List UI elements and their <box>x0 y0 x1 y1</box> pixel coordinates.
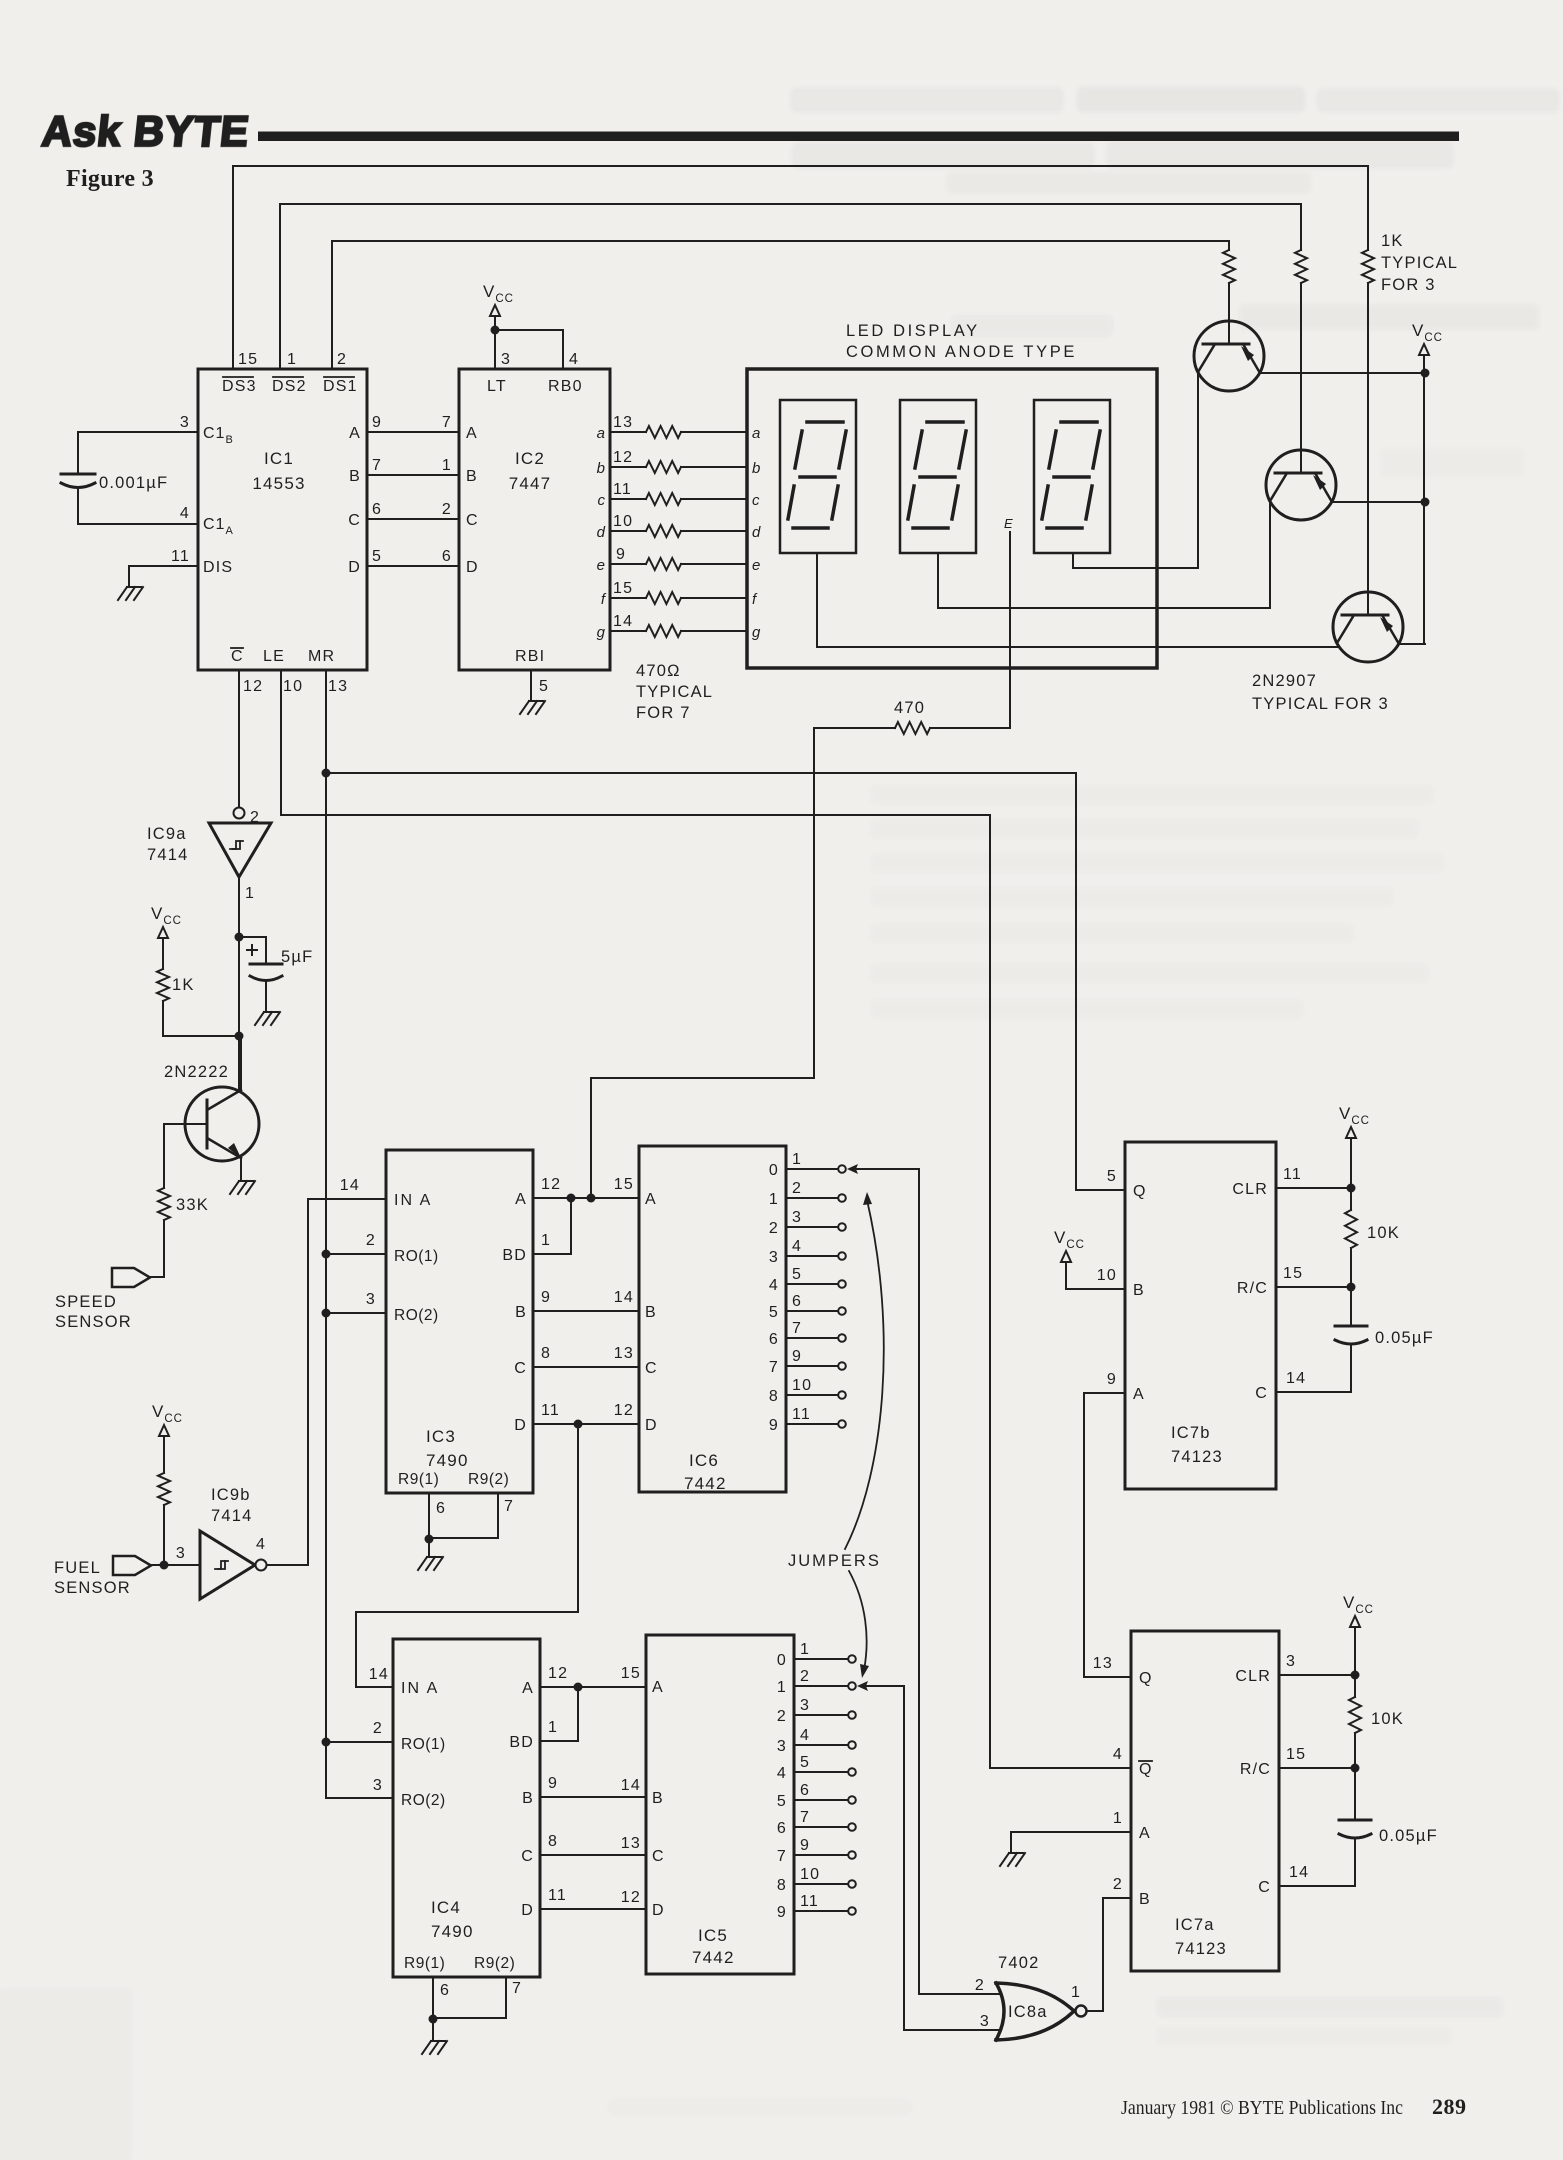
IC5 output 0 pin 1 jumper post <box>777 1641 856 1669</box>
svg-text:f: f <box>601 591 607 608</box>
wire IC4 R9 pins 6,7 to ground <box>429 1977 523 2040</box>
label JUMPERS with selection arrows <box>788 1192 884 1678</box>
IC6 output 3 pin 4 jumper post <box>769 1238 846 1266</box>
svg-text:13: 13 <box>614 1345 634 1362</box>
svg-text:TYPICAL FOR 3: TYPICAL FOR 3 <box>1252 695 1389 713</box>
svg-text:D: D <box>521 1902 534 1919</box>
svg-text:c: c <box>752 492 761 509</box>
wire IC1 MR pin 13 vertical to reset bus <box>322 670 331 1798</box>
svg-text:9: 9 <box>1107 1371 1117 1388</box>
svg-text:7442: 7442 <box>692 1948 735 1967</box>
IC5 output 9 pin 11 jumper post <box>777 1893 856 1921</box>
wire 470 resistor to IC3 A output <box>587 728 815 1203</box>
IC5 output 5 pin 6 jumper post <box>777 1782 856 1810</box>
svg-text:B: B <box>1133 1282 1145 1299</box>
svg-text:12: 12 <box>548 1665 568 1682</box>
svg-text:1: 1 <box>777 1679 787 1696</box>
svg-text:R9(2): R9(2) <box>474 1955 515 1972</box>
svg-text:0: 0 <box>769 1162 779 1179</box>
svg-text:3: 3 <box>373 1777 383 1794</box>
wire IC1 A to IC2 A <box>367 431 459 433</box>
IC5 output 3 pin 4 jumper post <box>777 1727 856 1755</box>
svg-text:BD: BD <box>502 1247 527 1264</box>
svg-text:SPEED: SPEED <box>55 1293 117 1311</box>
wire IC3 A to IC3 BD pin 1 <box>533 1198 571 1254</box>
svg-text:1: 1 <box>442 457 452 474</box>
svg-text:B: B <box>1139 1891 1151 1908</box>
svg-text:IC9b: IC9b <box>211 1486 251 1504</box>
svg-text:14: 14 <box>613 613 633 630</box>
IC5 output 7 pin 9 jumper post <box>777 1837 856 1865</box>
wire IC4 RO(1) pin 2 stub <box>326 1741 393 1743</box>
resistor 470 ohm segment c <box>610 493 747 505</box>
ground at IC1 DIS <box>118 587 143 600</box>
svg-text:3: 3 <box>800 1697 810 1714</box>
wire IC4 A out to IC5 A in <box>540 1683 646 1692</box>
svg-text:g: g <box>597 624 606 641</box>
wire IC3 R9 pins 6,7 to ground <box>425 1493 515 1556</box>
svg-text:7490: 7490 <box>426 1451 469 1470</box>
svg-text:RBI: RBI <box>515 648 545 665</box>
resistor 470 ohm segment f <box>610 592 747 604</box>
svg-text:6: 6 <box>436 1500 446 1517</box>
svg-text:8: 8 <box>541 1345 551 1362</box>
svg-text:6: 6 <box>442 548 452 565</box>
power symbol VCC at IC7a CLR <box>1343 1593 1374 1675</box>
svg-text:9: 9 <box>800 1837 810 1854</box>
svg-text:c: c <box>598 492 607 509</box>
svg-text:12: 12 <box>243 678 263 695</box>
svg-text:C: C <box>652 1848 665 1865</box>
svg-text:13: 13 <box>1093 1655 1113 1672</box>
svg-text:g: g <box>752 624 761 641</box>
svg-text:4: 4 <box>180 505 190 522</box>
svg-text:2N2222: 2N2222 <box>164 1063 229 1081</box>
svg-text:10K: 10K <box>1367 1224 1400 1242</box>
svg-text:7: 7 <box>442 414 452 431</box>
svg-text:RO(2): RO(2) <box>394 1307 439 1324</box>
svg-text:6: 6 <box>769 1331 779 1348</box>
IC6 output 7 pin 9 jumper post <box>769 1348 846 1376</box>
svg-text:R9(1): R9(1) <box>398 1471 439 1488</box>
svg-text:TYPICAL: TYPICAL <box>1381 254 1458 272</box>
svg-text:14: 14 <box>621 1777 641 1794</box>
svg-text:1: 1 <box>1071 1984 1081 2001</box>
svg-text:1: 1 <box>769 1191 779 1208</box>
ground at 5uF capacitor <box>255 1012 280 1025</box>
jumper wire IC5 output 1 to IC8a input 3 <box>857 1681 1001 2030</box>
wire IC4 C out to IC5 C in <box>540 1854 646 1856</box>
svg-text:15: 15 <box>1286 1746 1306 1763</box>
svg-text:6: 6 <box>777 1820 787 1837</box>
svg-text:12: 12 <box>621 1889 641 1906</box>
wire Q1 emitter to VCC rail <box>1260 369 1430 378</box>
resistor 470 ohm to node E <box>814 532 1010 734</box>
svg-text:0.001µF: 0.001µF <box>99 474 168 492</box>
svg-text:D: D <box>652 1902 665 1919</box>
figure caption "Figure 3" <box>66 166 154 192</box>
wire MR branch to IC7b Q pin 5 <box>326 773 1125 1190</box>
svg-text:14: 14 <box>1286 1370 1306 1387</box>
connector SPEED SENSOR <box>55 1220 164 1331</box>
svg-text:3: 3 <box>180 414 190 431</box>
capacitor 0.05uF at IC7b <box>1276 1287 1434 1392</box>
svg-text:3: 3 <box>769 1249 779 1266</box>
svg-text:C: C <box>521 1848 534 1865</box>
svg-text:470: 470 <box>894 699 925 717</box>
wire IC1 C-bar pin 12 to IC9a input <box>238 670 240 807</box>
wire IC2 RBI pin 5 to ground <box>530 670 532 700</box>
svg-text:7414: 7414 <box>211 1507 253 1525</box>
page header title "Ask BYTE" <box>40 108 252 155</box>
svg-text:2: 2 <box>366 1232 376 1249</box>
svg-text:470Ω: 470Ω <box>636 662 681 680</box>
svg-text:DIS: DIS <box>203 559 233 576</box>
svg-text:11: 11 <box>541 1402 560 1419</box>
svg-text:CLR: CLR <box>1235 1668 1271 1685</box>
svg-text:IC1: IC1 <box>264 449 294 468</box>
ground at IC3 R9 <box>418 1557 443 1570</box>
wire IC3 RO(1) pin 2 stub <box>326 1253 386 1255</box>
wire IC9b output to IC3 IN A <box>267 1199 386 1565</box>
wire IC1 DIS pin 11 to ground <box>129 566 198 586</box>
connector FUEL SENSOR <box>54 1505 200 1597</box>
svg-text:LE: LE <box>263 648 285 665</box>
svg-text:7490: 7490 <box>431 1922 474 1941</box>
svg-text:3: 3 <box>777 1738 787 1755</box>
svg-text:10: 10 <box>800 1866 820 1883</box>
svg-text:4: 4 <box>569 351 579 368</box>
wire Q4 emitter to ground <box>240 1158 242 1180</box>
svg-text:2N2907: 2N2907 <box>1252 672 1317 690</box>
7-segment digit 3 <box>1034 400 1110 553</box>
svg-text:5: 5 <box>1107 1168 1117 1185</box>
svg-text:9: 9 <box>372 414 382 431</box>
svg-text:4: 4 <box>1113 1746 1123 1763</box>
svg-text:DS1: DS1 <box>323 378 358 395</box>
svg-text:1: 1 <box>541 1232 551 1249</box>
wire IC9a output node <box>235 877 244 1089</box>
transistor Q2 2N2907 (digit2 driver) <box>1266 450 1336 520</box>
wire IC8a output pin 1 to IC7a B pin 2 <box>1087 1898 1131 2011</box>
svg-text:IC7a: IC7a <box>1175 1916 1215 1934</box>
svg-text:B: B <box>349 468 361 485</box>
wire digit2 common anode to Q2 collector <box>938 500 1270 608</box>
svg-text:11: 11 <box>548 1887 567 1904</box>
svg-text:10: 10 <box>1097 1267 1117 1284</box>
page number 289 <box>1432 2094 1467 2119</box>
svg-text:12: 12 <box>614 1402 634 1419</box>
svg-text:8: 8 <box>777 1877 787 1894</box>
svg-text:DS2: DS2 <box>272 378 307 395</box>
svg-text:IN A: IN A <box>401 1680 439 1697</box>
IC IC3 7490 (decade counter) <box>340 1150 561 1493</box>
svg-text:9: 9 <box>548 1775 558 1792</box>
svg-text:Ask BYTE: Ask BYTE <box>40 108 252 155</box>
svg-text:7: 7 <box>504 1498 514 1515</box>
wire IC3 D to IC4 IN A (cascade) <box>356 1424 578 1687</box>
svg-text:10K: 10K <box>1371 1710 1404 1728</box>
IC IC1 14553 (3-digit BCD counter) <box>171 351 382 695</box>
ground at Q4 emitter <box>230 1181 255 1194</box>
svg-text:A: A <box>515 1191 527 1208</box>
svg-text:5: 5 <box>800 1754 810 1771</box>
svg-text:14: 14 <box>614 1289 634 1306</box>
wire IC7a CLR pin 3 node <box>1279 1671 1360 1680</box>
IC6 output 8 pin 10 jumper post <box>769 1377 846 1405</box>
svg-text:B: B <box>645 1304 657 1321</box>
svg-text:15: 15 <box>238 351 258 368</box>
inverter IC9b 7414 (schmitt) <box>176 1486 267 1599</box>
svg-text:C: C <box>514 1360 527 1377</box>
wire IC1 DS1 pin 2 to Q1 base (top rail 3) <box>332 241 1229 369</box>
svg-text:4: 4 <box>256 1536 266 1553</box>
power symbol VCC at IC7b B pin 10 <box>1054 1228 1125 1289</box>
capacitor 5uF at IC9a output <box>239 937 313 1010</box>
capacitor 0.05uF at IC7a <box>1279 1768 1438 1886</box>
wire IC4 RO(2) pin 3 stub <box>326 1797 393 1799</box>
svg-text:2: 2 <box>373 1720 383 1737</box>
IC IC5 7442 (BCD decoder) <box>621 1635 794 1974</box>
wire 1K to Q3 base <box>1367 283 1369 592</box>
svg-text:14553: 14553 <box>252 474 305 493</box>
svg-text:33K: 33K <box>176 1196 209 1214</box>
svg-text:12: 12 <box>541 1176 561 1193</box>
svg-text:RO(1): RO(1) <box>401 1736 446 1753</box>
wire Q2 emitter to VCC rail <box>1332 498 1430 507</box>
svg-text:11: 11 <box>613 481 632 498</box>
resistor 10K at IC7b <box>1345 1188 1400 1287</box>
svg-text:SENSOR: SENSOR <box>54 1579 131 1597</box>
svg-text:11: 11 <box>171 548 190 565</box>
svg-text:b: b <box>752 460 761 477</box>
svg-text:D: D <box>466 559 479 576</box>
IC5 output 1 pin 2 jumper post <box>777 1668 856 1696</box>
wire IC3 C out to IC6 C in <box>533 1366 639 1368</box>
resistor 470 ohm segment a <box>610 426 747 438</box>
svg-text:74123: 74123 <box>1175 1940 1227 1958</box>
svg-text:IC4: IC4 <box>431 1898 461 1917</box>
svg-text:BD: BD <box>509 1734 534 1751</box>
svg-text:FOR 7: FOR 7 <box>636 704 691 722</box>
resistor 1K at Q2 base <box>1295 250 1307 283</box>
resistor 1K pullup (speed one-shot) <box>157 969 195 1001</box>
wire IC4 B out to IC5 B in <box>540 1796 646 1798</box>
svg-text:5: 5 <box>792 1266 802 1283</box>
IC6 output 4 pin 5 jumper post <box>769 1266 846 1294</box>
wire IC1 DS3 pin 15 to Q3 base (top rail 1) <box>233 166 1368 369</box>
svg-text:2: 2 <box>800 1668 810 1685</box>
svg-text:IC9a: IC9a <box>147 825 187 843</box>
svg-text:C: C <box>231 648 244 665</box>
label 470 ohm typical for 7 <box>636 662 713 722</box>
svg-text:2: 2 <box>337 351 347 368</box>
svg-text:RB0: RB0 <box>548 378 583 395</box>
svg-text:C: C <box>348 512 361 529</box>
ground at IC7a A <box>1000 1853 1025 1866</box>
inverter IC9a 7414 (schmitt) <box>147 808 271 903</box>
IC5 output 6 pin 7 jumper post <box>777 1809 856 1837</box>
wire IC3 D out to IC6 D in <box>533 1420 639 1429</box>
IC6 output 5 pin 6 jumper post <box>769 1293 846 1321</box>
svg-text:12: 12 <box>613 449 633 466</box>
IC6 output 1 pin 2 jumper post <box>769 1180 846 1208</box>
svg-text:A: A <box>466 425 478 442</box>
wire Q3 emitter to VCC rail <box>1399 643 1425 645</box>
svg-text:1K: 1K <box>1381 232 1404 250</box>
LED display common-anode module <box>747 322 1157 668</box>
wire 1K to Q2 base <box>1300 283 1302 450</box>
svg-text:R/C: R/C <box>1240 1761 1271 1778</box>
svg-text:RO(1): RO(1) <box>394 1248 439 1265</box>
resistor 1K at Q3 base <box>1362 250 1374 283</box>
svg-text:1K: 1K <box>172 976 195 994</box>
wire IC3 B out to IC6 B in <box>533 1310 639 1312</box>
svg-text:1: 1 <box>287 351 297 368</box>
svg-text:A: A <box>1139 1825 1151 1842</box>
wire IC1 DS2 pin 1 to Q2 base (top rail 2) <box>280 204 1301 369</box>
svg-text:3: 3 <box>176 1545 186 1562</box>
svg-text:RO(2): RO(2) <box>401 1792 446 1809</box>
label 2N2907 typical for 3 <box>1252 672 1389 713</box>
wire VCC to IC2 pins 3 and 4 <box>491 326 564 370</box>
wire IC7b A pin 9 to IC7a Q pin 13 <box>1084 1393 1131 1677</box>
wire 1K to Q1 base <box>1228 283 1230 321</box>
svg-text:11: 11 <box>792 1406 811 1423</box>
svg-text:DS3: DS3 <box>222 378 257 395</box>
svg-text:IC6: IC6 <box>689 1451 719 1470</box>
svg-text:R9(1): R9(1) <box>404 1955 445 1972</box>
label 1K typical for 3 <box>1381 232 1458 294</box>
wire Q4 collector to IC9a output node <box>240 1036 242 1090</box>
resistor 470 ohm segment e <box>610 558 747 570</box>
svg-text:e: e <box>597 557 606 574</box>
transistor Q1 2N2907 (digit3 driver) <box>1194 321 1264 391</box>
IC5 output 2 pin 3 jumper post <box>777 1697 856 1725</box>
svg-text:1: 1 <box>792 1151 802 1168</box>
svg-text:Q: Q <box>1139 1670 1153 1687</box>
wire IC7a A pin 1 to ground <box>1011 1832 1131 1852</box>
svg-text:4: 4 <box>777 1765 787 1782</box>
svg-text:7402: 7402 <box>998 1954 1040 1972</box>
svg-text:D: D <box>348 559 361 576</box>
svg-text:2: 2 <box>777 1708 787 1725</box>
svg-text:C: C <box>1258 1879 1271 1896</box>
resistor 1K at Q1 base <box>1223 250 1235 283</box>
svg-text:5: 5 <box>769 1304 779 1321</box>
svg-text:2: 2 <box>769 1220 779 1237</box>
svg-text:b: b <box>597 460 606 477</box>
svg-text:E: E <box>1004 516 1013 531</box>
resistor pullup (fuel input) <box>158 1473 170 1505</box>
svg-text:January 1981 © BYTE Publicatio: January 1981 © BYTE Publications Inc <box>1121 2097 1403 2119</box>
header rule <box>258 132 1459 142</box>
svg-text:B: B <box>652 1790 664 1807</box>
7-segment digit 2 <box>900 400 976 553</box>
svg-text:5: 5 <box>539 678 549 695</box>
svg-text:d: d <box>597 524 606 541</box>
IC5 output 8 pin 10 jumper post <box>777 1866 856 1894</box>
svg-text:3: 3 <box>1286 1653 1296 1670</box>
svg-text:FOR 3: FOR 3 <box>1381 276 1436 294</box>
svg-text:1: 1 <box>245 885 255 902</box>
svg-text:5: 5 <box>372 548 382 565</box>
node E (extra segment tap at display) <box>1004 516 1013 531</box>
svg-text:2: 2 <box>250 809 260 826</box>
svg-text:9: 9 <box>792 1348 802 1365</box>
7-segment digit 1 <box>780 400 856 553</box>
svg-text:f: f <box>752 591 758 608</box>
wire IC1 LE pin 10 to IC7a Q-bar <box>281 670 1131 1768</box>
svg-text:Q: Q <box>1133 1183 1147 1200</box>
resistor 33K at Q4 base <box>158 1124 209 1220</box>
svg-text:LT: LT <box>487 378 507 395</box>
svg-text:A: A <box>349 425 361 442</box>
svg-text:A: A <box>522 1680 534 1697</box>
wire IC7b CLR pin 11 node <box>1276 1184 1356 1193</box>
svg-text:B: B <box>515 1304 527 1321</box>
wire IC4 D out to IC5 D in <box>540 1908 646 1910</box>
resistor 470 ohm segment b <box>610 461 747 473</box>
svg-text:9: 9 <box>769 1417 779 1434</box>
svg-text:C: C <box>466 512 479 529</box>
svg-text:Q: Q <box>1139 1761 1153 1778</box>
svg-text:A: A <box>1133 1386 1145 1403</box>
svg-text:7447: 7447 <box>509 474 552 493</box>
svg-text:9: 9 <box>777 1904 787 1921</box>
resistor 10K at IC7a <box>1349 1675 1404 1768</box>
svg-text:IC7b: IC7b <box>1171 1424 1211 1442</box>
svg-text:A: A <box>652 1679 664 1696</box>
svg-text:3: 3 <box>792 1209 802 1226</box>
svg-text:11: 11 <box>1283 1166 1302 1183</box>
transistor Q4 2N2222 (speed sensor buffer) <box>164 1063 259 1161</box>
capacitor 0.001uF on IC1 C1B/C1A <box>61 432 198 524</box>
svg-text:2: 2 <box>442 501 452 518</box>
svg-text:3: 3 <box>501 351 511 368</box>
wire IC7b R/C pin 15 node <box>1276 1283 1356 1292</box>
wire digit3 common anode to Q1 collector <box>1073 371 1198 568</box>
svg-text:7414: 7414 <box>147 846 189 864</box>
svg-text:d: d <box>752 524 761 541</box>
svg-text:D: D <box>645 1417 658 1434</box>
power symbol VCC at 1K pullup (speed) <box>151 904 182 969</box>
svg-text:TYPICAL: TYPICAL <box>636 683 713 701</box>
svg-text:IC8a: IC8a <box>1008 2003 1048 2021</box>
svg-text:8: 8 <box>548 1833 558 1850</box>
wire digit1 common anode to Q3 collector <box>817 553 1337 647</box>
svg-text:0: 0 <box>777 1652 787 1669</box>
svg-text:9: 9 <box>541 1289 551 1306</box>
svg-text:15: 15 <box>1283 1265 1303 1282</box>
svg-text:a: a <box>752 425 761 442</box>
wire IC3 A out to IC6 A in <box>533 1194 639 1203</box>
svg-text:4: 4 <box>800 1727 810 1744</box>
VCC rail wire <box>1423 356 1425 644</box>
wire IC1 C to IC2 C <box>367 518 459 520</box>
power symbol VCC at fuel pullup <box>152 1402 183 1473</box>
svg-text:MR: MR <box>308 648 335 665</box>
svg-text:6: 6 <box>440 1982 450 1999</box>
svg-text:7442: 7442 <box>684 1474 727 1493</box>
svg-text:7: 7 <box>777 1848 787 1865</box>
svg-text:8: 8 <box>769 1388 779 1405</box>
svg-text:R/C: R/C <box>1237 1280 1268 1297</box>
svg-text:Figure 3: Figure 3 <box>66 166 154 192</box>
svg-text:5µF: 5µF <box>281 948 313 966</box>
svg-text:10: 10 <box>283 678 303 695</box>
IC6 output 9 pin 11 jumper post <box>769 1406 846 1434</box>
